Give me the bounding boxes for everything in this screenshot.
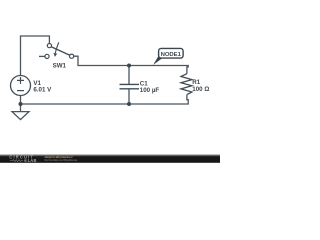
svg-text:6.01 V: 6.01 V <box>33 86 52 93</box>
wire SW1 unconnected throw stub <box>39 55 45 57</box>
switch SW1 <box>45 42 74 58</box>
node junction C1 bottom <box>127 102 131 106</box>
node junction V1-ground <box>19 102 23 106</box>
capacitor C1 <box>120 84 140 88</box>
svg-text:R1: R1 <box>192 79 200 86</box>
wire V1 bottom to ground node <box>20 96 22 104</box>
ground <box>12 104 29 120</box>
resistor R1 <box>181 74 192 95</box>
svg-text:100 µF: 100 µF <box>140 87 160 94</box>
wire SW1 common to top rail <box>74 56 189 73</box>
svg-text:SW1: SW1 <box>53 62 67 69</box>
wire C1 bottom lead <box>128 89 130 104</box>
wire C1 top lead <box>128 66 130 85</box>
wire bottom rail <box>21 95 189 104</box>
svg-text:NODE1: NODE1 <box>161 52 182 58</box>
voltage source V1 <box>11 76 31 96</box>
svg-text:LAB: LAB <box>28 158 37 163</box>
svg-text:http://circuitlab.com/c5j5pwk9: http://circuitlab.com/c5j5pwk9ssmap <box>45 158 78 162</box>
svg-text:100 Ω: 100 Ω <box>192 86 209 93</box>
footer watermark bar <box>0 155 220 163</box>
node junction C1 top <box>127 64 131 68</box>
footer logo CIRCUIT LAB <box>9 154 36 163</box>
node NODE1 flag <box>153 48 183 65</box>
wire top-left loop V1 top to SW1 <box>21 36 50 75</box>
